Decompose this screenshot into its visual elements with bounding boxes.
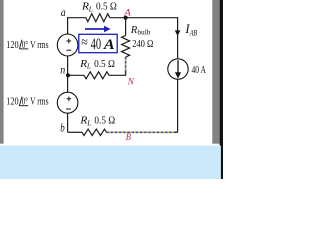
svg-text:0.5 Ω: 0.5 Ω: [94, 115, 115, 127]
svg-text:A: A: [103, 37, 115, 53]
svg-text:120: 120: [6, 39, 18, 51]
svg-text:R: R: [130, 24, 138, 36]
svg-text:A: A: [123, 9, 131, 19]
svg-text:L: L: [86, 119, 91, 128]
wire: left column V2 down to b corner: [67, 114, 69, 133]
resistor RL top 0.5 ohm: [86, 14, 110, 22]
svg-text:≈: ≈: [81, 36, 88, 51]
svg-text:n: n: [60, 63, 65, 76]
svg-text:b: b: [60, 122, 65, 134]
resistor Rbulb: [122, 36, 130, 58]
svg-text:120: 120: [6, 96, 18, 108]
svg-text:a: a: [61, 5, 66, 19]
node n junction dot: [66, 73, 70, 77]
wire: bottom wire b corner to resistor: [68, 131, 82, 133]
svg-text:L: L: [86, 62, 91, 71]
svg-text:B: B: [126, 132, 132, 142]
wire: left column V1 to node n to source V2: [67, 56, 69, 92]
wire: middle wire node n to resistor: [68, 74, 84, 76]
wire: top wire from node a corner to resistor: [68, 17, 86, 19]
current arrowhead IAB on wire: [175, 30, 181, 36]
bottom light blue band: [0, 146, 221, 180]
svg-text:0.5 Ω: 0.5 Ω: [94, 58, 115, 70]
svg-text:40 A: 40 A: [192, 65, 207, 76]
voltage source V2 circle: [57, 92, 78, 113]
annotation arrow (blue): [85, 28, 105, 30]
wire: bottom wire highlighted dashed (net B): [107, 131, 174, 133]
svg-text:N: N: [127, 77, 135, 88]
CS1 arrow down: [177, 60, 179, 73]
V2 minus sign: [66, 108, 71, 110]
node A junction dot: [124, 16, 128, 20]
wire: top wire resistor to node A: [110, 17, 126, 19]
resistor RL bottom 0.5 ohm: [82, 129, 107, 135]
wire: right column top corner down to current source: [177, 17, 179, 59]
svg-text:0.5 Ω: 0.5 Ω: [96, 0, 117, 12]
wire: Rbulb bottom lead, highlighted dashed: [125, 57, 127, 71]
current source CS1 circle: [168, 59, 188, 79]
wire: top wire node A to right corner: [126, 17, 178, 19]
wire: left column from a corner down to source V1: [67, 17, 69, 34]
V1 minus sign: [66, 49, 71, 51]
wire: right column current source to bottom corner: [177, 79, 179, 132]
svg-text:bulb: bulb: [137, 28, 150, 37]
V2 plus sign: [67, 97, 72, 102]
svg-text:40: 40: [91, 36, 102, 53]
right black edge strip: [220, 0, 223, 179]
left gray border strip: [0, 0, 4, 144]
wire: middle wire resistor to N corner: [109, 74, 125, 77]
right gray scrollbar bar: [212, 0, 219, 144]
wire: Rbulb top lead from node A: [125, 18, 127, 36]
annotation box approx 40 A: [79, 34, 117, 52]
svg-text:AB: AB: [189, 28, 197, 38]
voltage source V1 circle: [57, 34, 78, 56]
V1 plus sign: [67, 39, 72, 44]
svg-text:V rms: V rms: [30, 96, 48, 108]
svg-text:240 Ω: 240 Ω: [132, 38, 153, 50]
svg-text:V rms: V rms: [30, 39, 48, 51]
resistor RL middle 0.5 ohm: [84, 72, 109, 79]
svg-text:L: L: [88, 4, 93, 13]
